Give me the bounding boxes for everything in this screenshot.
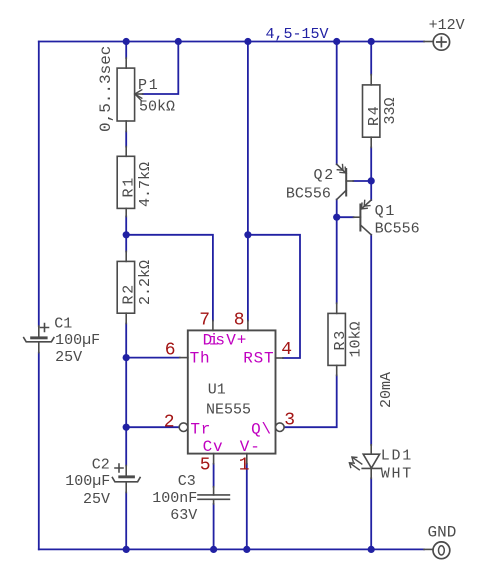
svg-text:0,5..3sec: 0,5..3sec xyxy=(97,46,115,132)
svg-text:2.2kΩ: 2.2kΩ xyxy=(137,260,154,305)
svg-text:LD1: LD1 xyxy=(381,448,413,465)
svg-text:Q\: Q\ xyxy=(251,421,272,439)
svg-text:Q1: Q1 xyxy=(375,203,397,220)
svg-text:10kΩ: 10kΩ xyxy=(348,321,365,357)
svg-text:R2: R2 xyxy=(120,283,137,305)
svg-text:Q2: Q2 xyxy=(314,167,336,184)
svg-text:Cv: Cv xyxy=(203,438,224,456)
svg-text:Tr: Tr xyxy=(190,421,211,439)
svg-text:63V: 63V xyxy=(170,507,197,524)
svg-text:20mA: 20mA xyxy=(378,372,395,408)
svg-text:7: 7 xyxy=(199,311,210,331)
svg-text:4.7kΩ: 4.7kΩ xyxy=(137,162,154,207)
svg-text:25V: 25V xyxy=(55,349,82,366)
svg-text:BC556: BC556 xyxy=(286,186,331,203)
svg-text:4: 4 xyxy=(281,340,292,360)
svg-text:4,5-15V: 4,5-15V xyxy=(266,26,329,43)
svg-text:C2: C2 xyxy=(92,457,110,474)
svg-text:6: 6 xyxy=(165,341,176,361)
svg-text:WHT: WHT xyxy=(381,466,413,483)
svg-text:Th: Th xyxy=(190,350,211,368)
svg-text:R4: R4 xyxy=(366,104,383,126)
svg-text:+12V: +12V xyxy=(429,17,465,34)
svg-text:25V: 25V xyxy=(83,491,110,508)
svg-text:2: 2 xyxy=(164,413,175,433)
svg-text:U1: U1 xyxy=(208,382,226,399)
svg-text:1: 1 xyxy=(239,456,250,476)
svg-text:33Ω: 33Ω xyxy=(382,97,399,124)
svg-text:R3: R3 xyxy=(332,329,349,351)
svg-text:P1: P1 xyxy=(138,77,160,94)
svg-text:50kΩ: 50kΩ xyxy=(139,99,175,116)
svg-text:100µF: 100µF xyxy=(55,332,100,349)
svg-text:100nF: 100nF xyxy=(152,490,197,507)
svg-text:RST: RST xyxy=(243,350,274,368)
svg-text:NE555: NE555 xyxy=(206,402,251,419)
svg-text:V-: V- xyxy=(240,438,261,456)
svg-text:8: 8 xyxy=(234,311,245,331)
svg-text:Dis: Dis xyxy=(203,332,225,350)
svg-text:100µF: 100µF xyxy=(65,473,110,490)
svg-text:C3: C3 xyxy=(178,473,196,490)
svg-text:R1: R1 xyxy=(120,176,137,198)
svg-text:V+: V+ xyxy=(226,332,247,350)
svg-text:3: 3 xyxy=(284,411,295,431)
svg-text:5: 5 xyxy=(200,456,211,476)
svg-text:GND: GND xyxy=(428,524,457,542)
svg-text:C1: C1 xyxy=(54,316,72,333)
svg-text:BC556: BC556 xyxy=(375,221,420,238)
